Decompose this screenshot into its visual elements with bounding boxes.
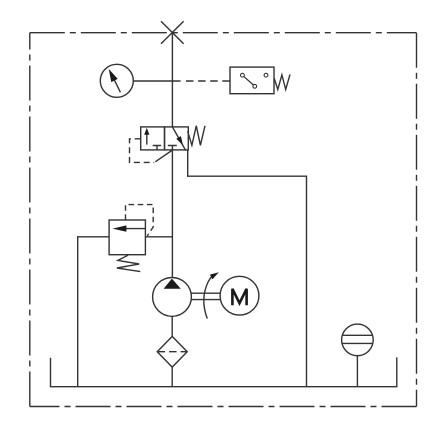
spring of pressure switch	[274, 74, 290, 89]
motor shaft coupling	[191, 293, 220, 299]
wire: relief valve to tank return	[78, 237, 109, 387]
solenoid valve V1 body (2-position)	[141, 127, 189, 150]
valve V1 left position: arrow up	[144, 128, 149, 145]
wire: pump to filter	[171, 316, 173, 336]
wire: main pressure line (X down to valve top)	[171, 33, 173, 127]
wire: gauge connection line	[133, 80, 180, 82]
dashed pilot line of valve V1	[130, 139, 155, 163]
breather B1	[342, 324, 374, 356]
wire: main line valve to pump	[171, 150, 173, 278]
pump P1	[153, 278, 192, 317]
wire: drain line from valve to tank (right side)	[188, 150, 307, 387]
wire: filter to tank bottom	[171, 367, 173, 387]
enclosure border bottom edge (dash-dot)	[30, 406, 417, 408]
electric motor M1	[220, 276, 259, 315]
spring of relief valve RV	[117, 255, 140, 271]
pressure switch PS	[230, 67, 274, 94]
valve V1 right position: blocked port T	[168, 146, 177, 150]
valve V1 left position: blocked port T	[153, 146, 161, 150]
relief valve RV dashed pilot line	[126, 205, 154, 236]
pressure gauge PG	[100, 64, 133, 97]
suction filter F1	[157, 336, 187, 367]
enclosure border top edge (dash-dot)	[30, 32, 417, 34]
spring of valve V1	[188, 126, 205, 146]
relief valve RV arrow (flow left)	[113, 225, 146, 231]
wire: breather to tank bottom	[356, 356, 358, 387]
pilot diagonal segment	[155, 151, 172, 162]
wire: dashed pilot line to pressure switch	[186, 80, 230, 82]
relief valve RV body	[109, 220, 145, 255]
wire: relief valve to main line	[145, 236, 172, 238]
enclosure border right edge (dash-dot)	[416, 33, 418, 407]
rotation direction arrow	[204, 272, 219, 318]
enclosure border left edge (dash-dot)	[29, 33, 31, 407]
port X symbol	[161, 21, 184, 44]
valve V1 right position: flow arrow diagonal	[172, 127, 185, 151]
tank reservoir T1	[51, 357, 397, 386]
